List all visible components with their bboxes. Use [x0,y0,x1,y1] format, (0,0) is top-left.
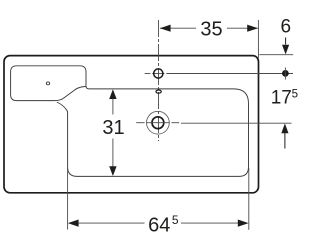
reference line from tap hole to dot (dim 6 / 17.5 boundary) [166,73,293,75]
drain horizontal centerline [136,122,144,124]
dim 31 bottom arrow (down) [109,166,116,176]
dim 35 left arrow [160,25,171,32]
dim 31 line [112,99,114,115]
dimension dot at tap-hole line [282,70,289,77]
bowl inner outline [57,86,249,176]
dim 6 arrow (down) [285,38,287,45]
svg-text:17: 17 [271,88,292,109]
overflow slot below tap hole [156,90,161,93]
fixing hole on shelf [46,82,49,85]
tap hole [154,69,163,78]
dim 64.5 extension line left [67,168,69,230]
shelf (tap deck) inner outline with ramp [11,66,86,101]
dim 6 lower boundary line (basin top edge extension) [259,54,293,56]
tap hole horizontal centerline [145,73,151,75]
svg-text:5: 5 [292,89,298,101]
svg-text:35: 35 [200,18,222,40]
svg-text:64: 64 [148,215,170,237]
dim 35 extension line right [257,20,259,58]
drain inner circle [152,117,164,129]
dim 64.5 left arrow [68,220,79,227]
washbasin outer outline [4,56,259,193]
svg-text:6: 6 [281,16,292,37]
drain outer circle [147,111,170,134]
dim 31 top arrow (up) [109,89,116,99]
svg-text:31: 31 [102,117,124,139]
dim 64.5 extension line right [248,168,250,230]
svg-text:5: 5 [172,213,179,227]
reference line from drain to right (17.5 lower boundary) [181,122,292,124]
dim 64.5 right arrow [238,220,249,227]
dot vertical stub [284,68,286,80]
dim 35 line [160,27,196,29]
dim 17.5 arrow (up) [281,124,288,134]
dim 35 right arrow [247,25,258,32]
dim 64.5 line [78,222,145,224]
tap hole vertical centerline / extension of dim 35 [158,20,160,141]
